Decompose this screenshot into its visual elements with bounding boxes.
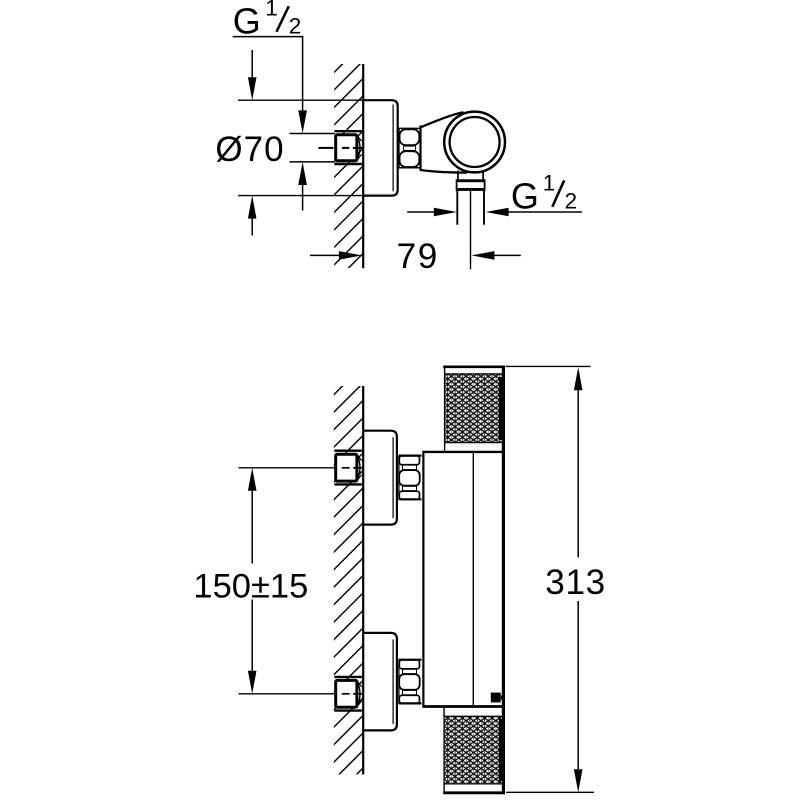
svg-text:313: 313 (545, 563, 606, 602)
outlet centerline extension (470, 191, 472, 269)
313 extension line bottom (506, 791, 594, 793)
arrow down to flange top (248, 77, 257, 100)
logo black square (491, 693, 501, 703)
313 extension line top (506, 365, 591, 367)
handle inner circle (top view) (450, 117, 500, 167)
body right bold edge (502, 366, 505, 795)
bottom knob outline (443, 791, 505, 794)
svg-text:150±15: 150±15 (193, 567, 308, 605)
body top edge (422, 451, 503, 453)
dimension line flange top (for Ø70) (238, 99, 364, 101)
wall line (top view) (362, 64, 364, 268)
dim line 150 lower + centerline (239, 693, 337, 695)
top knob outline (443, 365, 505, 368)
hex nut (top view) (398, 128, 400, 167)
svg-text:G: G (233, 0, 261, 41)
svg-text:Ø70: Ø70 (215, 130, 284, 169)
150 dim line lower part + down arrow (248, 671, 257, 694)
body left edge (422, 452, 424, 707)
outlet ring nut (top view) (456, 179, 485, 182)
wall flange (top view) (364, 100, 398, 195)
lower wall flange (front view) (364, 633, 397, 731)
svg-text:2: 2 (289, 13, 302, 38)
svg-text:G: G (511, 175, 539, 216)
bottom knob knurl right shade (499, 719, 503, 781)
dimension line flange bottom (for Ø70) (238, 195, 364, 197)
svg-text:1: 1 (543, 170, 556, 195)
dimension 79 left arrow (339, 251, 362, 260)
313 dim line lower part + down arrow (574, 769, 583, 792)
dimension 79 right arrow (471, 251, 494, 260)
arrow left to outlet right edge + underline (486, 208, 509, 217)
313 dim line upper part + up arrow (574, 367, 583, 390)
150 dim line upper part + up arrow (248, 468, 257, 491)
G1/2 right slash (552, 180, 564, 206)
upper wall flange (front view) (364, 431, 397, 525)
arrow down to pipe top edge (298, 110, 307, 133)
bottom knob knurl (445, 717, 502, 783)
arrow right to outlet left edge (434, 208, 457, 217)
top knob knurl right shade (499, 377, 503, 440)
svg-text:2: 2 (565, 188, 578, 213)
outlet neck (top view) (457, 171, 459, 180)
svg-text:79: 79 (397, 237, 439, 276)
wall hatching (top view) (330, 0, 366, 304)
lower hex nut (front view) (398, 659, 400, 703)
mixer body (top view) (419, 125, 421, 170)
lower square inlet fitting (front view) (334, 676, 362, 678)
top knob knurl (445, 375, 501, 443)
G1/2 top label underline (233, 36, 304, 38)
square inlet fitting (top view) (334, 130, 362, 132)
svg-text:1: 1 (265, 0, 278, 21)
arrow up to flange bottom (248, 196, 257, 219)
supply pipe bottom edge (top view) (290, 161, 336, 163)
flange inner edge line (top view) (392, 105, 394, 192)
upper hex nut (front view) (398, 455, 400, 499)
outlet pipe (top view) (456, 191, 458, 225)
centerline dash-dot (top view fitting) (318, 147, 333, 149)
handle outer circle (top view) (444, 112, 505, 173)
upper square inlet fitting (front view) (334, 450, 362, 452)
wall hatching (front view) (330, 310, 366, 800)
body bottom edge (422, 705, 503, 708)
arrow up to pipe bottom edge (298, 162, 307, 185)
leader line down from G1/2 (302, 37, 304, 112)
supply pipe top edge (top view) (290, 133, 336, 135)
wall line (front view) (362, 386, 364, 774)
G1/2 top label slash (277, 6, 289, 32)
body inner vertical line (472, 453, 474, 705)
dim line 150 upper + centerline (239, 467, 337, 469)
